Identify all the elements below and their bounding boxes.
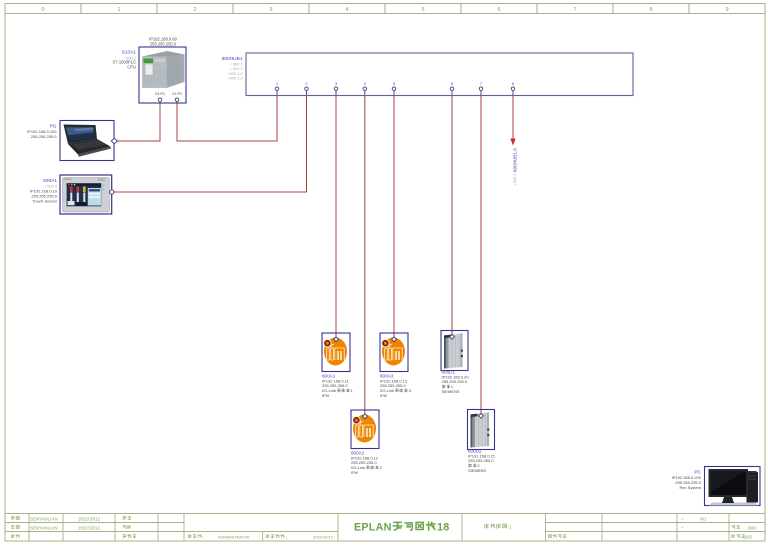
600A1 tag labels [322,374,350,398]
interruption point arrow 600HUB1.8 [510,139,515,146]
PC image [709,469,759,506]
svg-text:2022/10/12: 2022/10/12 [78,525,101,530]
PG tag [27,123,57,139]
wire: PLC X1:P1 to PG laptop [117,103,160,141]
svg-text:9: 9 [725,7,728,13]
600D2 tag labels [468,449,496,473]
IO-Link master 600A3 box [380,333,408,372]
wire: PLC X1:P2 to hub port 1 [177,95,277,141]
svg-text:7: 7 [573,7,576,13]
svg-text:Rec System: Rec System [679,485,701,490]
svg-text:8: 8 [649,7,652,13]
PLC S10A1 image [142,51,185,88]
wire: hub port 8 to interruption point [512,95,514,139]
svg-text:1: 1 [509,524,512,530]
svg-text:/ 601.2: / 601.2 [513,173,517,186]
touch panel image [63,178,110,213]
svg-text:105: 105 [744,535,752,541]
PLC S10A1 box [139,47,186,103]
600D1 connector diamond [450,334,455,339]
PG connector diamond [111,138,117,144]
svg-text::: : [286,534,287,539]
wire: hub port 4 to 600A2 [364,95,366,416]
wire: hub port 7 to 600D2 [480,95,482,416]
600A2 tag labels [351,451,379,475]
svg-text:3: 3 [269,7,272,13]
IO-Link master 600A2 box [351,410,379,449]
svg-text:M1: M1 [700,516,707,522]
PG laptop image [64,125,111,157]
600A3 tag labels [380,374,408,398]
svg-text:2022/10/12: 2022/10/12 [313,534,334,539]
PG laptop box [60,121,114,161]
module 600D1 image [444,333,463,368]
PC tag [672,470,702,491]
PLC ip labels [149,37,177,47]
svg-text:+: + [681,526,684,531]
svg-text:SIEMENS: SIEMENS [442,389,460,394]
svg-text:6: 6 [497,7,500,13]
svg-text:/: / [706,486,707,490]
svg-text:CPU: CPU [127,64,136,69]
svg-text:IFM: IFM [380,393,387,398]
svg-text:255.255.255.0: 255.255.255.0 [468,458,494,463]
svg-text:4: 4 [345,7,348,13]
svg-text:SENYANLIAN: SENYANLIAN [30,516,58,521]
svg-text:EPLAN: EPLAN [354,522,392,534]
svg-text::: : [203,534,204,539]
600A1 connector diamond [334,337,339,342]
module 600D1 box [441,331,468,371]
PC box [705,467,761,506]
svg-text:IFM: IFM [351,470,358,475]
wire: hub port 6 to 600D1 [451,95,453,337]
svg-text:600HUB1.8: 600HUB1.8 [512,148,517,172]
title block [5,514,765,542]
switch 600HUB1 box [246,53,633,96]
svg-text:255.255.255.0: 255.255.255.0 [442,379,468,384]
svg-text:600: 600 [748,526,756,532]
600HUB1 device tag [222,56,244,81]
wire: hub port 3 to 600A1 [335,95,337,339]
500A1 tag [30,178,58,204]
module 600D2 box [468,410,495,450]
svg-text:IFM: IFM [322,393,329,398]
IO-Link master 600A3 image (ifm logo) [381,338,405,366]
IO-Link master 600A1 box [322,333,350,372]
svg-text:Touch Screen: Touch Screen [33,199,57,204]
600D2 connector diamond [479,413,484,418]
svg-text:2: 2 [193,7,196,13]
module 600D2 image [471,412,490,447]
svg-text:/ 600.2.2: / 600.2.2 [226,76,243,81]
svg-text:255.255.255.0: 255.255.255.0 [150,42,177,47]
svg-text:X1:P1: X1:P1 [155,92,165,96]
svg-text:255.255.255.0: 255.255.255.0 [31,134,57,139]
600A3 connector diamond [392,337,397,342]
svg-text:SENYANLIAN: SENYANLIAN [30,525,58,530]
svg-text:1: 1 [117,7,120,13]
wire: hub port 2 to touch panel 500A1 [114,95,307,192]
svg-text:0: 0 [41,7,44,13]
600D1 tag labels [442,370,470,394]
touch panel 500A1 box [60,175,112,214]
svg-text:5: 5 [421,7,424,13]
svg-text:18: 18 [437,522,449,534]
wire: hub port 5 to 600A3 [393,95,395,339]
PLC device tag S10A1 [113,50,137,70]
svg-text:SIEMENS: SIEMENS [468,468,486,473]
svg-text:X1:P2: X1:P2 [172,92,182,96]
svg-text:ADMINISTRATOR: ADMINISTRATOR [218,534,250,539]
600A2 connector diamond [363,414,368,419]
500A1 connector [110,190,114,194]
svg-text:2022/10/12: 2022/10/12 [78,516,101,521]
svg-text:/: / [758,486,759,490]
IO-Link master 600A1 image (ifm logo) [323,338,347,366]
svg-text:=: = [681,517,684,522]
IO-Link master 600A2 image (ifm logo) [352,415,376,443]
